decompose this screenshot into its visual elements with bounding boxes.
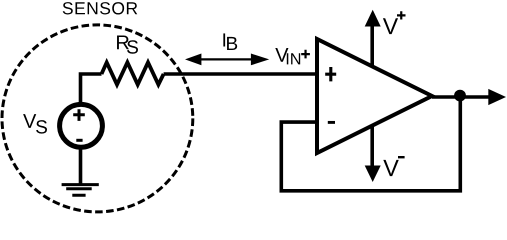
resistor RS <box>102 62 164 84</box>
sensor boundary (dashed circle) <box>2 25 193 212</box>
output node dot <box>454 90 466 102</box>
ground <box>62 185 99 196</box>
wire from Vs top to resistor <box>81 74 102 105</box>
label V- <box>383 160 398 176</box>
op-amp + input mark <box>325 67 336 81</box>
source + mark <box>73 109 85 121</box>
output arrowhead <box>488 89 506 105</box>
label IB <box>223 33 225 46</box>
wire Vs bottom to ground <box>79 147 83 184</box>
V+ supply arrow <box>370 25 374 67</box>
label V+ <box>383 18 398 34</box>
label VIN+ <box>275 48 288 62</box>
V- supply arrow <box>370 125 374 167</box>
op-amp - input mark <box>328 121 335 124</box>
op-amp U1 <box>317 39 432 153</box>
current IB double arrow <box>199 58 253 60</box>
label SENSOR <box>63 2 138 14</box>
label RS <box>117 36 129 50</box>
voltage source VS <box>60 104 103 147</box>
wire resistor to op-amp + input <box>164 72 317 76</box>
source - mark <box>76 139 82 142</box>
label VS <box>23 114 36 128</box>
feedback wire to inverting input <box>281 97 460 191</box>
output wire <box>432 95 489 99</box>
